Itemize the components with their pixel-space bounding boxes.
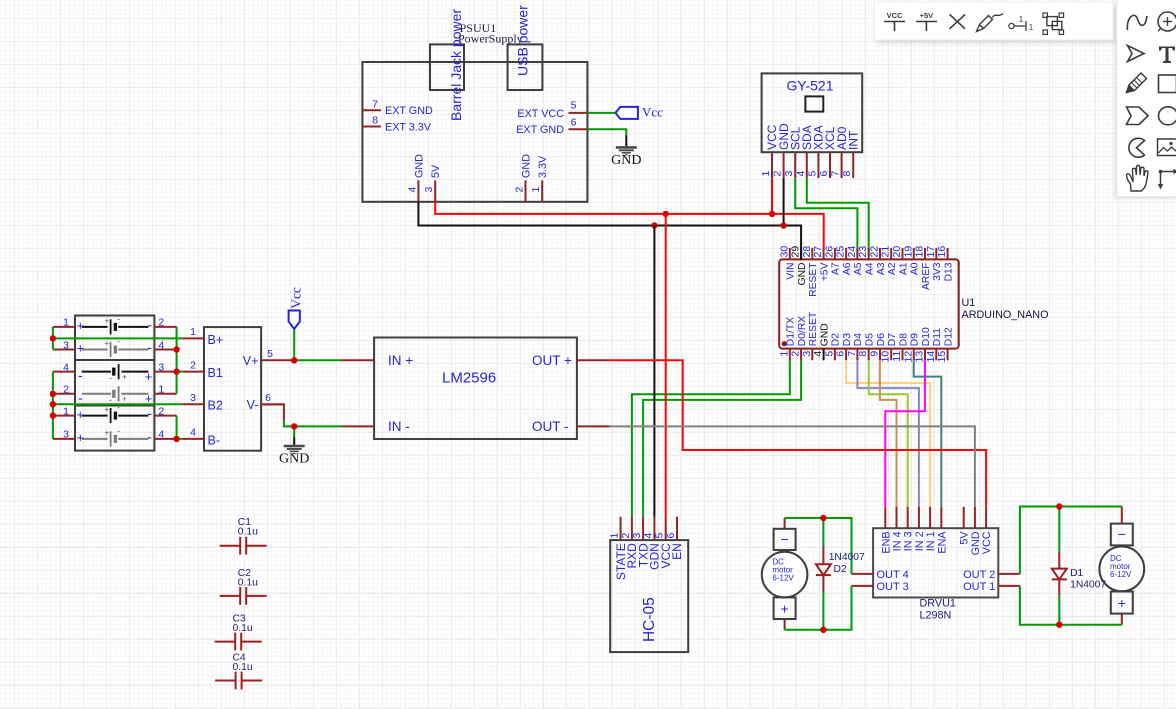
svg-text:VIN: VIN [786, 263, 797, 280]
svg-text:A3: A3 [876, 262, 887, 275]
U1 pin 29 GND (top) [790, 246, 808, 286]
svg-text:1: 1 [190, 326, 196, 338]
svg-text:30: 30 [778, 246, 790, 258]
svg-text:−: − [781, 531, 789, 547]
junction battery (176.6,371.6) [173, 368, 179, 374]
battery pin 4 (right, y=438.9) [154, 429, 176, 441]
svg-text:13: 13 [914, 351, 926, 363]
svg-text:3: 3 [63, 429, 69, 441]
svg-text:A6: A6 [842, 262, 853, 275]
wire Arduino D3 to L298N IN1 [846, 360, 930, 507]
wire B+ net [53, 337, 182, 339]
svg-text:6: 6 [818, 171, 830, 177]
terminal pin 4 B- [182, 427, 220, 448]
svg-text:A2: A2 [887, 262, 898, 275]
svg-text:22: 22 [869, 246, 881, 258]
svg-text:B1: B1 [208, 366, 223, 380]
label GY-521 [787, 78, 834, 94]
U1 pin 28 RESET (top) [801, 246, 819, 297]
svg-text:OUT 3: OUT 3 [877, 581, 909, 593]
svg-text:4: 4 [642, 533, 654, 539]
svg-text:EXT VCC: EXT VCC [517, 108, 564, 120]
wire battery right bus lower [176, 416, 178, 439]
toolbar icon arrowhead [1128, 46, 1145, 62]
svg-text:9: 9 [869, 351, 881, 357]
svg-text:+: + [77, 407, 85, 422]
ground symbol GND (near PSU) [611, 147, 641, 168]
svg-text:8: 8 [841, 171, 853, 177]
HC-05 pin 2 RXD [620, 517, 639, 569]
wire V+ to LM2596 IN+ [292, 359, 341, 361]
svg-text:3: 3 [423, 187, 435, 193]
L298N pin ENB [880, 507, 892, 554]
svg-text:1N4007: 1N4007 [1070, 579, 1106, 590]
toolbar icon text [1159, 47, 1175, 64]
junction GND/GY-521 GND [780, 222, 786, 228]
svg-text:4: 4 [63, 361, 69, 373]
wire GY-521 SDA to Arduino A4 [807, 178, 869, 256]
svg-text:GND: GND [797, 263, 808, 286]
HC-05 pin 6 EN [665, 517, 684, 560]
svg-text:0.1u: 0.1u [238, 527, 258, 538]
right DC motor body [1099, 524, 1144, 614]
U1 pin 16 D13 (top) [936, 246, 954, 282]
battery pin 1 (left, y=326.9) [53, 317, 75, 329]
wire Arduino D4 to L298N IN2 [857, 360, 919, 507]
label USB power [515, 5, 531, 76]
U1 pin 30 VIN (top) [778, 246, 796, 280]
svg-text:D3: D3 [842, 333, 853, 346]
terminal pin 5 V+ [243, 348, 292, 368]
svg-text:D2: D2 [831, 333, 842, 346]
svg-text:+: + [122, 395, 127, 404]
U1 pin 20 A1 (top) [891, 246, 909, 275]
U1 pin 2 D0/RX (bottom) [790, 316, 808, 361]
battery pin 2 (right, y=415.6) [154, 405, 176, 417]
wire Arduino D6 to L298N IN4 [880, 360, 897, 507]
junction battery (52.9,393.8) [50, 391, 56, 397]
svg-text:27: 27 [812, 246, 824, 258]
svg-text:29: 29 [790, 246, 802, 258]
L298N pin OUT 4 [852, 569, 909, 581]
svg-text:5: 5 [654, 533, 666, 539]
junction battery (52.9,404.3) [50, 401, 56, 407]
PSUU1 pin 8 EXT 3.3V [362, 115, 431, 134]
battery pin 2 (right, y=326.9) [154, 317, 176, 329]
svg-text:RESET: RESET [808, 311, 819, 346]
svg-text:1: 1 [760, 171, 772, 177]
battery pin 3 (left, y=438.9) [53, 429, 75, 441]
svg-text:5: 5 [571, 100, 577, 112]
svg-text:OUT 4: OUT 4 [877, 569, 909, 581]
svg-text:D7: D7 [887, 333, 898, 346]
svg-text:U1: U1 [962, 297, 976, 309]
toolbar icon group [1043, 13, 1064, 34]
toolbar icon arc [1129, 138, 1145, 157]
svg-text:USB power: USB power [515, 5, 531, 76]
svg-text:IN 4: IN 4 [892, 531, 904, 551]
svg-text:6-12V: 6-12V [772, 573, 794, 582]
svg-text:B-: B- [208, 433, 221, 447]
svg-text:14: 14 [925, 351, 937, 363]
svg-text:AREF: AREF [921, 263, 932, 290]
svg-text:OUT 1: OUT 1 [963, 581, 995, 593]
wire Arduino D9 to L298N ENA [914, 360, 942, 507]
svg-text:+: + [122, 373, 127, 382]
toolbar icon rectangle [1159, 75, 1176, 93]
svg-text:3: 3 [783, 171, 795, 177]
battery pin 3 (left, y=349.5) [53, 339, 75, 351]
capacitor C4 0.1u [215, 652, 262, 689]
svg-text:+5V: +5V [920, 11, 934, 20]
svg-text:-: - [147, 339, 152, 355]
junction D1 bottom [1056, 622, 1062, 628]
svg-text:1: 1 [609, 533, 621, 539]
junction D2 bottom [820, 627, 826, 633]
svg-text:-: - [78, 367, 83, 383]
svg-text:IN 2: IN 2 [914, 531, 926, 551]
svg-text:26: 26 [823, 246, 835, 258]
svg-text:+: + [77, 430, 85, 445]
wire right motor bottom to L298N OUT1 [1020, 586, 1122, 625]
L298N pin IN 2 [914, 507, 926, 551]
junction battery (52.9,338.4) [50, 335, 56, 341]
junction battery (52.9,415.6) [50, 412, 56, 418]
U1 pin 17 3V3 (top) [925, 246, 943, 281]
svg-text:+5V: +5V [819, 262, 830, 281]
wire B2 net [53, 403, 182, 405]
svg-text:4: 4 [158, 429, 164, 441]
svg-text:D6: D6 [876, 333, 887, 346]
toolbar icon pencil [1127, 73, 1147, 93]
battery pin 2 (left, y=393.8) [53, 384, 75, 396]
wire HC-05 TXD to Arduino D0/RX [643, 360, 801, 516]
HC-05 pin 3 TXD [631, 517, 650, 568]
svg-text:GND: GND [521, 154, 533, 178]
svg-text:3: 3 [631, 533, 643, 539]
right motor pin stubs [1121, 507, 1123, 625]
svg-text:GY-521: GY-521 [787, 78, 834, 94]
svg-text:1: 1 [778, 351, 790, 357]
PSUU1 pin 2 GND [514, 154, 533, 202]
svg-text:2: 2 [772, 171, 784, 177]
svg-text:A5: A5 [853, 262, 864, 275]
svg-text:5V: 5V [959, 531, 971, 545]
ground symbol GND (near LM2596) [279, 446, 309, 467]
svg-text:EXT 3.3V: EXT 3.3V [385, 121, 432, 133]
svg-text:6-12V: 6-12V [1110, 570, 1132, 579]
U1 pin 3 RESET (bottom) [801, 311, 819, 360]
svg-text:D8: D8 [898, 333, 909, 346]
svg-text:D1: D1 [1070, 568, 1083, 579]
svg-text:18: 18 [914, 246, 926, 258]
svg-text:GND: GND [611, 153, 641, 168]
svg-text:10: 10 [880, 351, 892, 363]
toolbar icon spline [1127, 15, 1147, 30]
svg-text:D4: D4 [853, 333, 864, 346]
wire GY-521 VCC to +5V net [771, 178, 773, 214]
U1 pin 14 D11 (bottom) [925, 328, 943, 363]
svg-text:2: 2 [620, 533, 632, 539]
U1 pin 9 D6 (bottom) [869, 333, 887, 361]
U1 pin 27 +5V (top) [812, 246, 830, 281]
svg-text:A7: A7 [831, 262, 842, 275]
capacitor C3 0.1u [215, 614, 262, 651]
svg-text:L298N: L298N [920, 609, 952, 621]
power supply module PSUU1 body [362, 44, 587, 201]
svg-text:ENA: ENA [936, 531, 948, 554]
terminal pin 6 V- [247, 392, 284, 412]
U1 pin 13 D10 (bottom) [914, 327, 932, 362]
svg-text:D9: D9 [910, 333, 921, 346]
svg-text:2: 2 [63, 384, 69, 396]
svg-text:16: 16 [936, 246, 948, 258]
HC-05 module body [610, 540, 688, 652]
LM2596 pin OUT+ [532, 353, 610, 368]
svg-text:7: 7 [846, 351, 858, 357]
svg-text:5V: 5V [430, 164, 442, 178]
toolbar icon circle-plus [1158, 12, 1176, 31]
junction V+/Vcc [291, 357, 297, 363]
wire GY-521 SCL to Arduino A5 [795, 178, 857, 256]
svg-text:3.3V: 3.3V [537, 155, 549, 178]
label PSUU1 PowerSupply [458, 21, 523, 46]
PSUU1 pin 6 EXT GND [516, 116, 587, 136]
svg-text:7: 7 [830, 171, 842, 177]
LM2596 pin IN- [341, 419, 410, 434]
junction +5V/HC-05 VCC [663, 211, 669, 217]
battery cell B1b [77, 337, 153, 358]
svg-text:5: 5 [823, 351, 835, 357]
U1 pin 1 D1/TX (bottom) [778, 317, 796, 360]
PSUU1 pin 7 EXT GND [362, 98, 433, 117]
toolbar icon wire pen [977, 14, 1004, 32]
svg-text:OUT 2: OUT 2 [963, 569, 995, 581]
svg-text:VCC: VCC [887, 11, 903, 20]
battery pin 3 (right, y=371.6) [154, 361, 176, 373]
svg-text:GND: GND [819, 323, 830, 346]
svg-text:ENB: ENB [880, 531, 892, 553]
svg-text:LM2596: LM2596 [442, 370, 496, 387]
wire V- to ground [293, 426, 295, 445]
svg-text:2: 2 [514, 187, 526, 193]
svg-text:2: 2 [190, 359, 196, 371]
battery pin 4 (left, y=371.6) [53, 361, 75, 373]
svg-text:8: 8 [857, 351, 869, 357]
junction battery (176.6,349.5) [173, 346, 179, 352]
GY-521 pin 6 XCL [818, 126, 837, 178]
junction GND/HC-05 GND [651, 222, 657, 228]
svg-text:5: 5 [806, 171, 818, 177]
svg-text:A1: A1 [898, 262, 909, 275]
wire EXT VCC to Vcc flag [587, 112, 615, 114]
wire HC-05 VCC to +5V net [665, 214, 667, 517]
toolbar icon +5V [916, 11, 937, 31]
wire battery left bus lower [52, 372, 54, 439]
U1 pin 21 A2 (top) [880, 246, 898, 275]
wire Arduino D5 to L298N IN3 [869, 360, 908, 507]
svg-text:ARDUINO_NANO: ARDUINO_NANO [962, 309, 1049, 321]
svg-text:VCC: VCC [981, 531, 993, 554]
svg-text:2: 2 [158, 317, 164, 329]
U1 pin 8 D5 (bottom) [857, 333, 875, 361]
label Barrel Jack power [448, 9, 464, 121]
L298N pin 5V [959, 507, 971, 545]
svg-text:1: 1 [1029, 23, 1034, 32]
svg-text:+: + [104, 429, 109, 438]
capacitor C1 0.1u [220, 517, 267, 555]
battery pin 1 (right, y=393.8) [154, 384, 176, 396]
svg-text:1: 1 [1019, 15, 1024, 24]
U1 pin 18 AREF (top) [914, 246, 932, 290]
junction +5V/GY-521 VCC [769, 211, 775, 217]
battery cell B3a [77, 403, 153, 424]
GY-521 pin 1 VCC [760, 124, 779, 178]
left DC motor body [762, 529, 808, 619]
svg-text:3: 3 [801, 351, 813, 357]
L298N pin IN 1 [925, 507, 937, 551]
svg-text:3: 3 [190, 392, 196, 404]
U1 pin 7 D4 (bottom) [846, 333, 864, 361]
svg-text:2: 2 [790, 351, 802, 357]
U1 pin 6 D3 (bottom) [835, 333, 853, 361]
svg-text:−: − [1118, 526, 1126, 542]
svg-text:IN 1: IN 1 [925, 531, 937, 551]
junction D2 top [820, 515, 826, 521]
battery holder 3 body [75, 406, 154, 451]
wire +5V net from PSU pin3 (red) [435, 202, 824, 248]
svg-text:RESET: RESET [808, 262, 819, 297]
wire HC-05 GDN to GND net [653, 226, 655, 517]
wire OUT+ to L298N VCC (red) [610, 360, 986, 507]
svg-text:3: 3 [63, 339, 69, 351]
toolbar icon ellipse [1159, 107, 1176, 125]
svg-text:Vcc: Vcc [642, 105, 663, 120]
Vcc power flag (battery V+) [289, 287, 304, 360]
U1 pin 22 A3 (top) [869, 246, 887, 275]
GY-521 pin 8 INT [841, 130, 860, 178]
svg-text:+: + [77, 341, 85, 356]
PSUU1 pin 4 GND [406, 154, 425, 202]
toolbar icon drag-route [1158, 169, 1176, 190]
PSUU1 pin 1 3.3V [530, 155, 549, 202]
svg-text:D12: D12 [943, 327, 954, 346]
label D1 1N4007 [1070, 568, 1106, 591]
svg-text:4: 4 [190, 427, 196, 439]
right toolbar panel [1117, 0, 1176, 197]
capacitor C2 0.1u [220, 568, 267, 605]
PSUU1 pin 3 5V [423, 164, 442, 202]
svg-text:1N4007: 1N4007 [829, 552, 865, 563]
wire B- net [177, 438, 183, 440]
svg-text:-: - [117, 426, 120, 436]
L298N pin IN 3 [903, 507, 915, 551]
svg-text:D1/TX: D1/TX [786, 317, 797, 346]
L298N pin OUT 1 [963, 581, 1020, 593]
svg-text:HC-05: HC-05 [641, 597, 658, 642]
svg-text:OUT -: OUT - [532, 419, 569, 434]
svg-text:-: - [117, 314, 120, 324]
junction battery (176.6,438.9) [173, 436, 179, 442]
U1 pin 4 GND (bottom) [812, 323, 830, 360]
svg-text:6: 6 [265, 392, 271, 404]
svg-text:DRVU1: DRVU1 [920, 598, 956, 610]
svg-text:Vcc: Vcc [289, 287, 304, 309]
svg-text:D5: D5 [865, 333, 876, 346]
GY-521 pin 4 SDA [795, 125, 814, 178]
toolbar icon VCC [884, 11, 905, 31]
svg-text:+: + [104, 339, 109, 348]
svg-text:A4: A4 [865, 262, 876, 275]
battery holder 1 body [75, 316, 154, 361]
battery pin 4 (right, y=349.5) [154, 339, 176, 351]
HC-05 pin 1 STATE [609, 517, 628, 580]
svg-text:+: + [781, 600, 789, 616]
svg-text:Barrel Jack power: Barrel Jack power [448, 9, 464, 121]
svg-text:-: - [147, 429, 152, 445]
LM2596 pin IN+ [341, 353, 413, 368]
svg-text:D10: D10 [921, 327, 932, 346]
L298N pin OUT 2 [963, 569, 1020, 581]
svg-text:4: 4 [795, 171, 807, 177]
svg-text:28: 28 [801, 246, 813, 258]
svg-text:6: 6 [665, 533, 677, 539]
svg-text:B2: B2 [208, 399, 223, 413]
wire GND net from PSU pin4 (black) [418, 202, 801, 260]
L298N driver DRVU1 body [873, 528, 998, 597]
LM2596 pin OUT- [532, 419, 610, 434]
svg-text:11: 11 [891, 351, 903, 362]
diode D2 1N4007 [816, 518, 831, 630]
L298N pin GND [970, 507, 982, 556]
svg-text:+: + [104, 317, 109, 326]
svg-text:0.1u: 0.1u [233, 662, 253, 673]
svg-text:0.1u: 0.1u [233, 623, 253, 634]
toolbar icon polygon [1127, 107, 1149, 125]
svg-text:15: 15 [936, 351, 948, 363]
svg-text:-: - [147, 405, 152, 421]
terminal pin 2 B1 [182, 359, 223, 380]
U1 pin 10 D7 (bottom) [880, 333, 898, 363]
wire EXT GND to ground [587, 129, 626, 147]
U1 pin 19 A0 (top) [902, 246, 920, 275]
toolbar icon netport [1009, 15, 1034, 32]
U1 pin 25 A6 (top) [835, 246, 853, 275]
svg-text:INT: INT [846, 130, 860, 150]
svg-text:2: 2 [158, 405, 164, 417]
svg-text:23: 23 [857, 246, 869, 258]
U1 pin 26 A7 (top) [823, 246, 841, 275]
Vcc power flag (PSU EXT VCC) [615, 105, 663, 120]
battery cell B2b [78, 386, 152, 406]
wire left motor top to L298N OUT4 [785, 518, 852, 574]
svg-text:6: 6 [835, 351, 847, 357]
svg-text:3V3: 3V3 [932, 262, 943, 281]
toolbar icon delete [950, 14, 966, 28]
battery holder 2 body [75, 360, 154, 406]
svg-text:IN 3: IN 3 [903, 531, 915, 551]
U1 pin 12 D9 (bottom) [902, 333, 920, 363]
HC-05 pin 4 GDN [642, 517, 661, 570]
GY-521 pin 5 XDA [806, 125, 825, 178]
top toolbar panel [874, 2, 1113, 40]
wire right motor top to L298N OUT2 [1020, 507, 1122, 574]
U1 pin 11 D8 (bottom) [891, 333, 909, 362]
svg-text:3: 3 [158, 361, 164, 373]
svg-text:12: 12 [902, 351, 914, 363]
GY-521 pin 2 GND [772, 123, 791, 178]
GY-521 pin 7 AD0 [830, 126, 849, 178]
